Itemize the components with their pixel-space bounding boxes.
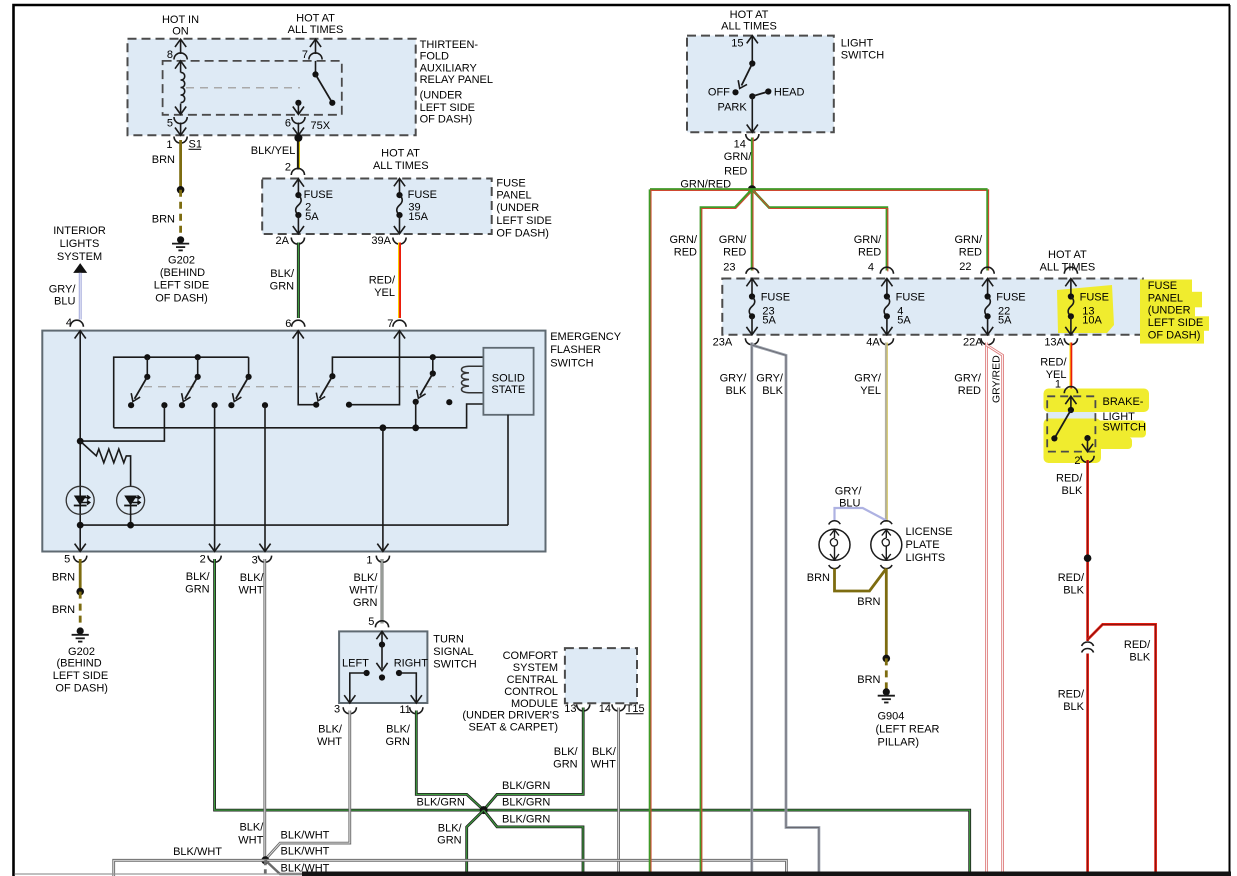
svg-text:BRN: BRN xyxy=(857,596,880,608)
svg-text:SEAT & CARPET): SEAT & CARPET) xyxy=(469,721,558,733)
svg-text:OF DASH): OF DASH) xyxy=(1148,329,1201,341)
svg-text:BLK/: BLK/ xyxy=(354,572,379,584)
flasher switch S1a xyxy=(128,357,167,408)
svg-text:6: 6 xyxy=(285,118,291,130)
svg-text:LEFT SIDE: LEFT SIDE xyxy=(1148,317,1203,329)
svg-text:(UNDER: (UNDER xyxy=(496,202,539,214)
svg-text:BLK/: BLK/ xyxy=(270,268,295,280)
svg-text:LEFT: LEFT xyxy=(342,658,369,670)
fuse panel 2 box xyxy=(722,279,1143,335)
fuse panel2 pin 22A xyxy=(963,337,994,349)
wire GRY/BLK 23A straight down xyxy=(720,343,752,873)
svg-text:BLK: BLK xyxy=(762,385,783,397)
svg-text:GRN/: GRN/ xyxy=(719,234,747,246)
svg-text:FUSE: FUSE xyxy=(1148,280,1177,292)
svg-text:PANEL: PANEL xyxy=(496,190,531,202)
svg-text:GRN: GRN xyxy=(270,281,295,293)
svg-text:FUSE: FUSE xyxy=(408,189,437,201)
wire pin1 from lower bus xyxy=(377,428,388,552)
wire GRY/BLU to interior lights xyxy=(49,273,81,320)
svg-text:OFF: OFF xyxy=(708,87,730,99)
svg-text:4A: 4A xyxy=(866,337,880,349)
svg-text:FUSE: FUSE xyxy=(304,189,333,201)
svg-text:RED/: RED/ xyxy=(1056,473,1083,485)
flasher switch S5 xyxy=(413,357,453,428)
flasher switch S1b xyxy=(179,357,218,408)
fuse panel 1 box xyxy=(262,179,492,235)
relay pin 1 S1 xyxy=(166,137,202,151)
svg-text:GRY/RED: GRY/RED xyxy=(991,355,1003,403)
wire RED/BLK lower to bottom xyxy=(1058,654,1088,873)
svg-text:BLK/GRN: BLK/GRN xyxy=(502,796,550,808)
svg-text:WHT: WHT xyxy=(239,585,264,597)
svg-text:BLK/WHT: BLK/WHT xyxy=(281,830,330,842)
svg-text:CENTRAL: CENTRAL xyxy=(507,674,558,686)
wire GRN/RED second-left leg down xyxy=(670,189,753,873)
interior lights system arrow + label xyxy=(53,225,106,273)
svg-text:YEL: YEL xyxy=(374,287,395,299)
svg-text:WHT/: WHT/ xyxy=(349,585,378,597)
wire BLK/WHT/GRN flasher pin1 to turn signal xyxy=(349,559,382,624)
svg-text:LIGHTS: LIGHTS xyxy=(906,552,946,564)
svg-text:BRN: BRN xyxy=(52,604,75,616)
light switch box xyxy=(687,36,834,133)
svg-text:GRN: GRN xyxy=(386,736,411,748)
svg-text:BLK/: BLK/ xyxy=(592,746,617,758)
svg-text:GRN: GRN xyxy=(553,759,578,771)
svg-text:5A: 5A xyxy=(305,211,319,223)
svg-text:2: 2 xyxy=(200,554,206,566)
BLK/WHT junction labels xyxy=(281,830,330,875)
svg-text:5: 5 xyxy=(64,554,70,566)
relay pin 5 xyxy=(167,117,187,135)
svg-text:10A: 10A xyxy=(1082,314,1102,326)
svg-text:(UNDER DRIVER'S: (UNDER DRIVER'S xyxy=(462,709,559,721)
svg-text:FLASHER: FLASHER xyxy=(550,344,601,356)
BLK/GRN junction labels xyxy=(417,780,551,825)
svg-text:6: 6 xyxy=(285,318,291,330)
wire GRN/RED to fuse 4 xyxy=(752,189,888,273)
svg-text:GRY/: GRY/ xyxy=(854,373,882,385)
wire pin4 to pin5 vertical xyxy=(75,331,86,552)
svg-text:8: 8 xyxy=(167,49,173,61)
svg-text:BLK/: BLK/ xyxy=(186,571,211,583)
svg-text:BLK: BLK xyxy=(1063,585,1084,597)
wire BLK/GRN flasher pin2 long run xyxy=(185,559,970,873)
svg-text:22: 22 xyxy=(959,261,971,273)
wire GRY/RED 22A branch right xyxy=(987,345,1003,873)
solid state box xyxy=(483,348,533,415)
svg-text:BLK/: BLK/ xyxy=(386,724,411,736)
relay panel label xyxy=(420,39,493,126)
flasher pin 2 connector xyxy=(200,554,222,566)
highlight brake switch xyxy=(1044,389,1150,464)
fuse panel 1 label xyxy=(496,178,551,240)
svg-text:PLATE: PLATE xyxy=(906,539,940,551)
svg-text:BLK: BLK xyxy=(1063,701,1084,713)
wire BLK/WHT below junction xyxy=(264,860,267,876)
wire BLK/GRN junction branch down-left xyxy=(437,810,484,872)
svg-text:BLK/YEL: BLK/YEL xyxy=(251,145,296,157)
light switch internals xyxy=(708,36,805,133)
svg-text:BLK/: BLK/ xyxy=(438,823,463,835)
highlight fuse panel 2 label xyxy=(1140,280,1209,344)
svg-text:3: 3 xyxy=(252,555,258,567)
svg-text:COMFORT: COMFORT xyxy=(503,650,559,662)
flasher pin 3 connector xyxy=(252,555,272,567)
hot at all times label (fuse 13) xyxy=(1040,249,1096,273)
ground G202 (bottom) xyxy=(53,627,108,694)
hot at all times label (relay) xyxy=(288,13,344,36)
svg-text:GRY/: GRY/ xyxy=(954,373,982,385)
svg-text:G202: G202 xyxy=(168,255,195,267)
svg-text:BRN: BRN xyxy=(152,214,175,226)
svg-text:GRY/: GRY/ xyxy=(835,485,863,497)
svg-text:5: 5 xyxy=(368,616,374,628)
svg-text:BLU: BLU xyxy=(54,296,75,308)
svg-text:4: 4 xyxy=(868,261,874,273)
fuse panel2 pin 23A xyxy=(713,337,759,349)
svg-text:OF DASH): OF DASH) xyxy=(55,682,108,694)
svg-text:BLK: BLK xyxy=(1129,652,1150,664)
svg-text:LEFT SIDE: LEFT SIDE xyxy=(53,670,108,682)
svg-text:7: 7 xyxy=(302,49,308,61)
svg-text:RED: RED xyxy=(958,385,981,397)
brake-light switch box fill xyxy=(1047,396,1095,451)
wire BLK/YEL relay pin6 to fuse 2 xyxy=(251,134,303,170)
flasher pin 7 xyxy=(387,318,406,339)
flasher pin 6 xyxy=(285,318,305,339)
wire BRN flasher pin5 to G202 xyxy=(52,559,84,629)
turn signal pin 5 xyxy=(368,616,388,628)
flasher pin7 internal wire xyxy=(346,331,400,408)
solid state bottom wire xyxy=(507,415,509,525)
svg-text:LIGHT: LIGHT xyxy=(841,38,874,50)
wire RED/YEL 39A to flasher pin 7 xyxy=(369,243,400,319)
comfort module terminal T15 xyxy=(626,703,645,715)
svg-text:PARK: PARK xyxy=(718,102,748,114)
svg-text:RED/: RED/ xyxy=(1058,572,1085,584)
svg-text:WHT: WHT xyxy=(238,835,263,847)
highlight fuse 13 text xyxy=(1057,285,1114,333)
fuse 4 5A xyxy=(880,267,925,335)
wire BRN S1 to G202 xyxy=(152,140,185,237)
svg-text:SYSTEM: SYSTEM xyxy=(513,662,558,674)
flasher switch S2 pole wire (pin2) xyxy=(209,405,220,551)
wire BLK/WHT turn pin3 down xyxy=(265,711,350,860)
svg-text:RED: RED xyxy=(674,246,697,258)
svg-text:MODULE: MODULE xyxy=(511,698,558,710)
junction node BLK/GRN xyxy=(480,806,488,814)
comfort module pin 13 xyxy=(564,703,590,715)
svg-text:39A: 39A xyxy=(371,235,391,247)
relay pin 6 75X xyxy=(285,117,331,135)
svg-text:BLK: BLK xyxy=(726,385,747,397)
svg-text:14: 14 xyxy=(599,703,611,715)
svg-text:HEAD: HEAD xyxy=(774,87,805,99)
svg-text:GRN/: GRN/ xyxy=(854,234,882,246)
fuse panel 2 label xyxy=(1148,280,1203,341)
svg-text:PANEL: PANEL xyxy=(1148,292,1183,304)
LED 2 xyxy=(117,486,145,525)
hot at all times label (fuse 39) xyxy=(373,148,429,172)
svg-text:RED: RED xyxy=(724,166,747,178)
svg-text:INTERIOR: INTERIOR xyxy=(53,225,106,237)
flasher linkage dashed xyxy=(144,386,454,388)
fuse 39 15A xyxy=(394,179,437,234)
wire BLK/WHT flasher pin3 down xyxy=(238,559,265,860)
svg-text:5A: 5A xyxy=(998,314,1012,326)
svg-text:FUSE: FUSE xyxy=(1080,292,1109,304)
wire RED/YEL 13A to brake switch xyxy=(1040,343,1071,391)
svg-text:ALL TIMES: ALL TIMES xyxy=(373,160,429,172)
fuse 23 5A xyxy=(746,268,790,335)
turn signal pin 11 connector xyxy=(399,704,423,716)
svg-text:GRN: GRN xyxy=(437,835,462,847)
brake-light switch box xyxy=(1047,396,1095,451)
svg-text:15: 15 xyxy=(731,38,743,50)
svg-text:S1: S1 xyxy=(189,138,202,150)
svg-text:AUXILIARY: AUXILIARY xyxy=(420,63,478,75)
svg-text:BLU: BLU xyxy=(839,498,860,510)
svg-text:RED/: RED/ xyxy=(1058,689,1085,701)
svg-text:OF DASH): OF DASH) xyxy=(496,227,549,239)
svg-text:FUSE: FUSE xyxy=(761,292,790,304)
svg-text:BRAKE-: BRAKE- xyxy=(1103,396,1144,408)
brake switch pin 2 connector xyxy=(1074,455,1094,467)
flasher pin6 internal wire xyxy=(298,331,319,408)
svg-text:FUSE: FUSE xyxy=(996,292,1025,304)
fuse 2 5A xyxy=(293,179,333,234)
svg-text:G904: G904 xyxy=(878,711,905,723)
svg-text:2A: 2A xyxy=(276,235,290,247)
turn signal switch label xyxy=(433,634,476,671)
wire BLK/GRN 2A to flasher pin 6 xyxy=(270,243,299,319)
light switch pin 14 connector xyxy=(734,134,759,151)
svg-text:BLK/GRN: BLK/GRN xyxy=(502,780,550,792)
svg-text:RED/: RED/ xyxy=(1124,639,1151,651)
turn signal internals xyxy=(342,631,428,703)
relay switch (pin 7 side) xyxy=(293,39,336,114)
load reduction relay box xyxy=(163,61,342,115)
svg-text:(BEHIND: (BEHIND xyxy=(56,658,101,670)
svg-text:(BEHIND: (BEHIND xyxy=(160,267,205,279)
svg-text:LIGHTS: LIGHTS xyxy=(60,238,100,250)
svg-text:CONTROL: CONTROL xyxy=(504,686,558,698)
comfort module label xyxy=(462,650,559,734)
svg-text:FUSE: FUSE xyxy=(496,178,525,190)
svg-text:GRY/: GRY/ xyxy=(49,283,77,295)
svg-text:SWITCH: SWITCH xyxy=(1103,422,1146,434)
svg-text:75X: 75X xyxy=(311,120,331,132)
svg-text:7: 7 xyxy=(387,318,393,330)
svg-text:BLK: BLK xyxy=(1062,485,1083,497)
svg-text:GRY/: GRY/ xyxy=(720,373,748,385)
relay panel box xyxy=(128,39,416,136)
svg-text:T15: T15 xyxy=(626,703,645,715)
svg-text:BLK/: BLK/ xyxy=(240,572,265,584)
comfort module pin 14 xyxy=(599,703,625,715)
svg-text:SIGNAL: SIGNAL xyxy=(433,646,473,658)
emergency flasher switch box xyxy=(42,331,545,552)
turn signal switch box xyxy=(339,631,427,703)
svg-text:BRN: BRN xyxy=(857,674,880,686)
light switch label xyxy=(841,38,884,62)
wire BLK/WHT module pin14 down to bottom xyxy=(591,708,619,873)
svg-text:14: 14 xyxy=(734,139,746,151)
svg-text:RED/: RED/ xyxy=(1040,356,1067,368)
turn signal pin 3 connector xyxy=(334,704,356,716)
svg-text:HOT IN: HOT IN xyxy=(162,14,199,26)
svg-text:23: 23 xyxy=(723,261,735,273)
svg-text:(UNDER: (UNDER xyxy=(420,90,463,102)
flasher pin 5 connector xyxy=(64,554,87,566)
ground G904 xyxy=(876,688,940,748)
svg-text:EMERGENCY: EMERGENCY xyxy=(550,331,622,343)
svg-text:2: 2 xyxy=(285,161,291,173)
svg-text:1: 1 xyxy=(1055,379,1061,391)
svg-text:YEL: YEL xyxy=(860,385,881,397)
svg-text:23A: 23A xyxy=(713,337,733,349)
svg-text:LICENSE: LICENSE xyxy=(906,526,953,538)
wire BLK/GRN junction branch down-right xyxy=(484,810,583,872)
svg-text:FUSE: FUSE xyxy=(896,292,925,304)
svg-text:BRN: BRN xyxy=(807,572,830,584)
fuse panel1 pin 2 xyxy=(285,161,305,186)
svg-text:GRN/: GRN/ xyxy=(724,151,752,163)
wire BRN left bulb to right xyxy=(807,569,887,609)
license lamp right bulb xyxy=(871,521,902,569)
svg-text:HOT AT: HOT AT xyxy=(730,9,769,21)
fuse panel1 pin 2A xyxy=(276,235,305,247)
svg-text:BLK/: BLK/ xyxy=(554,746,579,758)
svg-text:SOLID: SOLID xyxy=(492,372,525,384)
flasher pin 4 xyxy=(66,317,86,339)
svg-text:PILLAR): PILLAR) xyxy=(878,737,920,749)
wire BLK/GRN module pin13 to junction xyxy=(484,708,583,810)
svg-text:SWITCH: SWITCH xyxy=(433,658,476,670)
svg-text:GRN/: GRN/ xyxy=(955,234,983,246)
wire BLK/GRN turn pin11 down xyxy=(386,711,483,810)
svg-text:SWITCH: SWITCH xyxy=(550,357,593,369)
svg-text:RED: RED xyxy=(723,246,746,258)
brake switch pin 1 connector xyxy=(1055,379,1078,394)
wire GRY/BLU jumper xyxy=(835,485,887,521)
junction node BLK/WHT xyxy=(261,856,269,864)
svg-text:THIRTEEN-: THIRTEEN- xyxy=(420,39,479,51)
wire RED/BLK branch right xyxy=(1088,624,1156,872)
wire GRY/BLK 23A branch right xyxy=(752,345,819,873)
svg-text:ALL TIMES: ALL TIMES xyxy=(288,24,344,36)
wire GRN/RED junction horizontal xyxy=(650,189,988,190)
svg-text:WHT: WHT xyxy=(317,736,342,748)
comfort module box xyxy=(565,648,637,703)
svg-text:5A: 5A xyxy=(897,314,911,326)
license plate lights label xyxy=(906,526,953,564)
hot in on label xyxy=(162,14,199,38)
svg-text:G202: G202 xyxy=(68,646,95,658)
svg-text:1: 1 xyxy=(166,139,172,151)
svg-text:RIGHT: RIGHT xyxy=(394,658,429,670)
fuse panel2 pin 4A xyxy=(866,337,893,349)
svg-text:HOT AT: HOT AT xyxy=(381,148,420,160)
svg-text:13A: 13A xyxy=(1044,337,1064,349)
LED 1 xyxy=(66,486,94,514)
flasher bottom bus xyxy=(77,522,508,529)
svg-text:GRY/: GRY/ xyxy=(756,373,784,385)
svg-text:2: 2 xyxy=(1074,455,1080,467)
svg-text:RED: RED xyxy=(858,246,881,258)
svg-text:RED/: RED/ xyxy=(369,275,396,287)
brake-light switch label xyxy=(1103,396,1146,433)
svg-text:(LEFT REAR: (LEFT REAR xyxy=(876,724,940,736)
wire GRY/RED 22A straight down xyxy=(954,343,986,873)
svg-text:5: 5 xyxy=(167,118,173,130)
fuse 13 10A xyxy=(1064,267,1109,335)
svg-text:11: 11 xyxy=(399,704,410,716)
wire GRN/RED far-left leg down xyxy=(650,189,651,872)
wire S1a output to resistor node xyxy=(80,405,164,441)
svg-text:15A: 15A xyxy=(408,211,428,223)
ground G202 (top) xyxy=(154,236,209,305)
svg-text:GRN: GRN xyxy=(185,584,210,596)
flasher switch S1c xyxy=(228,357,268,408)
svg-text:FOLD: FOLD xyxy=(420,51,449,63)
hot at all times label (light switch) xyxy=(721,9,777,32)
wire RED/BLK brake switch down xyxy=(1056,460,1091,641)
svg-text:WHT: WHT xyxy=(591,759,616,771)
svg-text:TURN: TURN xyxy=(433,634,464,646)
relay linkage dashed xyxy=(186,87,300,89)
svg-text:BLK/WHT: BLK/WHT xyxy=(281,846,330,858)
svg-text:3: 3 xyxy=(334,704,340,716)
svg-text:ON: ON xyxy=(172,26,189,38)
svg-text:5A: 5A xyxy=(762,314,776,326)
brake switch internals xyxy=(1051,396,1093,451)
svg-text:ALL TIMES: ALL TIMES xyxy=(721,20,777,32)
svg-text:HOT AT: HOT AT xyxy=(1048,249,1087,261)
svg-text:BRN: BRN xyxy=(52,571,75,583)
svg-text:BRN: BRN xyxy=(152,154,175,166)
wire BRN right bulb to G904 xyxy=(857,569,890,690)
fuse panel1 pin 39A xyxy=(371,235,406,247)
wire BLK/WHT bottom horizontal xyxy=(114,846,787,876)
svg-text:BLK/: BLK/ xyxy=(318,724,343,736)
svg-text:(UNDER: (UNDER xyxy=(1148,305,1191,317)
fuse 22 5A xyxy=(981,267,1026,335)
wire GRN/RED pin14 to junction xyxy=(724,138,753,190)
svg-text:BLK/: BLK/ xyxy=(239,822,264,834)
flasher lower bus xyxy=(114,404,484,431)
wire GRN/RED to fuse 23 xyxy=(719,189,753,273)
flasher pin 1 connector xyxy=(366,555,389,567)
svg-text:13: 13 xyxy=(564,703,576,715)
svg-text:LEFT SIDE: LEFT SIDE xyxy=(420,102,475,114)
inline connector on RED/BLK xyxy=(1082,642,1094,652)
svg-text:OF DASH): OF DASH) xyxy=(155,293,208,305)
fuse panel2 pin 13A xyxy=(1044,337,1077,349)
solid state coil xyxy=(462,366,484,393)
svg-text:BLK/GRN: BLK/GRN xyxy=(417,797,465,809)
svg-text:HOT AT: HOT AT xyxy=(296,13,335,25)
bottom component bar xyxy=(302,872,1231,876)
wire BLK/WHT junction diagonal to bottom line xyxy=(15,860,305,874)
svg-text:BLK/WHT: BLK/WHT xyxy=(173,846,222,858)
svg-text:RELAY PANEL: RELAY PANEL xyxy=(420,74,493,86)
svg-text:RED: RED xyxy=(959,246,982,258)
svg-text:GRN/: GRN/ xyxy=(670,234,698,246)
svg-text:SWITCH: SWITCH xyxy=(841,50,884,62)
